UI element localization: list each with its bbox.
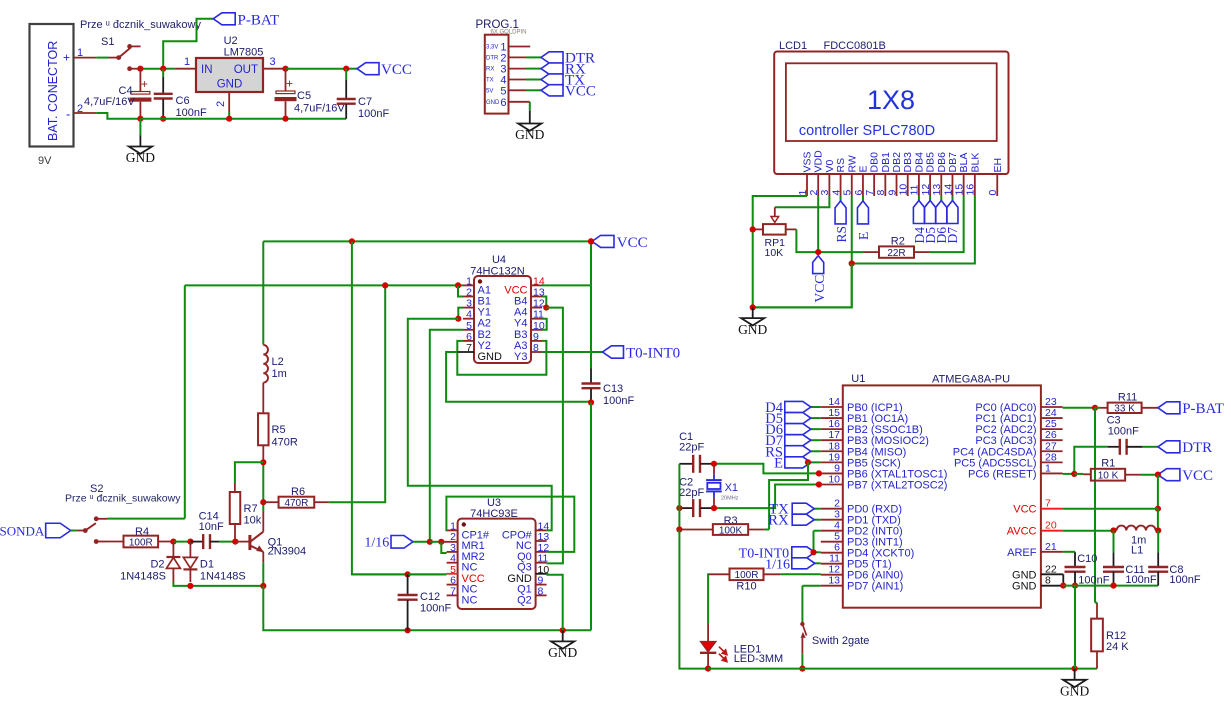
svg-text:AREF: AREF bbox=[1007, 547, 1037, 559]
pin 9 U4 A3 bbox=[531, 340, 542, 342]
svg-text:S1: S1 bbox=[101, 36, 114, 48]
wire diode GND rail bbox=[173, 582, 263, 586]
svg-text:100nF: 100nF bbox=[176, 107, 207, 119]
svg-text:GND: GND bbox=[1012, 569, 1037, 581]
svg-text:0: 0 bbox=[987, 190, 999, 196]
pin 5 U3 VCC bbox=[447, 573, 458, 575]
junction L1 right bbox=[1155, 527, 1161, 533]
flag E LCD bbox=[857, 201, 868, 224]
wire Y1 to A2 bbox=[458, 308, 463, 319]
svg-text:100nF: 100nF bbox=[420, 603, 451, 615]
pin 5 U4 B2 bbox=[463, 329, 474, 331]
capacitor C12 100nF bbox=[407, 574, 409, 594]
svg-text:R10: R10 bbox=[736, 581, 756, 593]
wire PB7 XTAL2 net bbox=[714, 485, 821, 509]
junction PB6 bbox=[816, 470, 822, 476]
svg-text:100nF: 100nF bbox=[358, 108, 389, 120]
wire PROG pin2 to DTR flag bbox=[509, 56, 527, 58]
svg-text:8: 8 bbox=[875, 190, 887, 196]
junction C11 bottom bbox=[1110, 583, 1116, 589]
junction VCC rail to U3 riser bbox=[349, 238, 355, 244]
junction C5 bottom bbox=[282, 116, 288, 122]
wire DB4 to flag D4 bbox=[918, 196, 920, 201]
flag VCC rail bbox=[592, 235, 614, 247]
wire VCC node horizontal bbox=[818, 251, 863, 253]
svg-text:+: + bbox=[63, 51, 70, 65]
svg-text:GND: GND bbox=[1060, 684, 1089, 699]
flag VCC below LCD bbox=[813, 256, 824, 274]
svg-text:+: + bbox=[286, 77, 293, 91]
svg-text:DB0: DB0 bbox=[869, 152, 881, 173]
pin 8 U1 GND bbox=[1041, 585, 1063, 587]
inductor L1 1m bbox=[1117, 526, 1156, 531]
svg-text:PD7 (AIN1): PD7 (AIN1) bbox=[847, 581, 903, 593]
pin 1 U4 A1 bbox=[463, 284, 474, 286]
wire PROG pin5 to VCC flag bbox=[509, 89, 527, 91]
svg-text:22: 22 bbox=[1045, 563, 1057, 575]
junction PC0 R11 bbox=[1092, 405, 1098, 411]
svg-text:22pF: 22pF bbox=[679, 442, 704, 454]
wire U1 GND pins bracket bbox=[1062, 574, 1064, 585]
wire OUT to VCC flag bbox=[286, 68, 347, 70]
svg-text:1: 1 bbox=[1045, 462, 1051, 474]
pin 6 U1 PD4 bbox=[821, 552, 843, 554]
ground GND right bbox=[1074, 669, 1076, 680]
wire DB6 to flag D6 bbox=[940, 196, 942, 201]
svg-text:Y3: Y3 bbox=[514, 351, 527, 363]
flag D4 to U1 bbox=[811, 406, 821, 408]
junction R4 right D2 top bbox=[170, 539, 176, 545]
junction Q1 base node bbox=[232, 539, 238, 545]
svg-text:GND: GND bbox=[478, 351, 503, 363]
svg-text:VCC: VCC bbox=[1182, 468, 1213, 484]
resistor R10 100R bbox=[709, 573, 730, 575]
junction Y1-A2 bbox=[455, 316, 461, 322]
svg-text:E: E bbox=[857, 165, 869, 172]
pin 1 U3 CP1# bbox=[447, 529, 458, 531]
svg-text:BLK: BLK bbox=[969, 153, 981, 173]
svg-text:ATMEGA8A-PU: ATMEGA8A-PU bbox=[932, 374, 1010, 386]
flag P-BAT bbox=[213, 13, 235, 25]
svg-text:24 K: 24 K bbox=[1106, 641, 1129, 653]
pin 2 U2 bbox=[228, 92, 230, 112]
wire DB5 to flag D5 bbox=[929, 196, 931, 201]
wire U4 GND pin7 route to C13 bottom bbox=[457, 351, 463, 353]
junction PB7 bbox=[816, 481, 822, 487]
wire PROG pin3 to RX flag bbox=[509, 68, 527, 70]
svg-text:1: 1 bbox=[797, 190, 809, 196]
wire MR1 stub bbox=[441, 541, 457, 543]
wire C10 gnd riser bbox=[1074, 586, 1076, 669]
flag VCC power section bbox=[357, 63, 379, 75]
svg-text:7: 7 bbox=[466, 342, 472, 354]
junction redraw VCC rail bbox=[588, 238, 594, 244]
svg-text:SONDA: SONDA bbox=[0, 524, 45, 539]
junction GND symbol right bbox=[1072, 666, 1078, 672]
wire V0 to RP1 wiper bbox=[775, 196, 830, 207]
junction VCC flag right bbox=[1155, 472, 1161, 478]
svg-text:RX: RX bbox=[768, 513, 789, 529]
wire left riser to bottom rail bbox=[679, 530, 708, 669]
pin 10 U3 GND bbox=[536, 573, 547, 575]
pin 11 U4 Y4 bbox=[531, 318, 542, 320]
wire C13 bottom to U3 GND rail bbox=[590, 403, 592, 631]
pin 1 U1 PC6 bbox=[1041, 472, 1063, 474]
svg-text:9V: 9V bbox=[38, 155, 52, 167]
svg-text:GND: GND bbox=[126, 150, 155, 165]
junction switch bottom bbox=[799, 666, 805, 672]
wire Y4 to B3 bbox=[542, 319, 547, 330]
capacitor C8 100nF bbox=[1157, 531, 1159, 553]
pin 28 U1 PC5 bbox=[1041, 461, 1063, 463]
junction R6 left bbox=[260, 499, 266, 505]
pin 12 U1 PD6 bbox=[821, 574, 843, 576]
wire SONDA to S2 bbox=[71, 530, 77, 532]
svg-text:4,7uF/16V: 4,7uF/16V bbox=[84, 96, 135, 108]
junction P-BAT riser bbox=[160, 66, 166, 72]
svg-text:R7: R7 bbox=[244, 503, 258, 515]
wire R7 bottom bbox=[234, 523, 236, 542]
pin 14 U3 CPO# bbox=[536, 529, 547, 531]
svg-text:3: 3 bbox=[819, 190, 831, 196]
flag 1/16 to U1 bbox=[815, 562, 821, 564]
pin 6 U4 Y2 bbox=[463, 340, 474, 342]
pin 9 U3 Q1 bbox=[536, 584, 547, 586]
junction C2 right / X1 bottom bbox=[711, 505, 717, 511]
svg-text:3,3V: 3,3V bbox=[486, 45, 498, 51]
wire RP1 right to VCC node bbox=[786, 228, 797, 230]
svg-text:L2: L2 bbox=[272, 356, 284, 368]
svg-text:1N4148S: 1N4148S bbox=[120, 571, 166, 583]
pin 14 U4 VCC bbox=[531, 284, 542, 286]
wire VCC riser right bbox=[1157, 475, 1159, 509]
svg-text:Prze ᵘ đcznik_suwakowy: Prze ᵘ đcznik_suwakowy bbox=[80, 19, 201, 31]
wire PC0 node bbox=[1063, 407, 1095, 409]
junction L1 left bbox=[1110, 527, 1116, 533]
svg-text:GND: GND bbox=[1012, 581, 1037, 593]
pin 6 U3 NC bbox=[447, 584, 458, 586]
wire battery pin2 to GND rail bbox=[74, 112, 97, 114]
wire S2 riser bbox=[184, 285, 186, 518]
wire GND rail top-left bbox=[140, 118, 229, 120]
svg-text:V0: V0 bbox=[824, 159, 836, 172]
junction B2 riser bbox=[427, 539, 433, 545]
junction R5 bottom bbox=[260, 459, 266, 465]
pin 8 U4 Y3 bbox=[531, 351, 542, 353]
svg-text:DB7: DB7 bbox=[947, 152, 959, 173]
wire PB6 XTAL1 net bbox=[714, 464, 821, 474]
pin 24 U1 PC1 bbox=[1041, 417, 1063, 419]
junction A1 net R6 riser bbox=[382, 282, 388, 288]
svg-text:6: 6 bbox=[500, 97, 506, 109]
svg-text:1X8: 1X8 bbox=[867, 85, 915, 115]
svg-text:TX: TX bbox=[486, 78, 494, 84]
svg-text:R5: R5 bbox=[272, 424, 286, 436]
wire R6 right to U4 A1 net bbox=[329, 285, 385, 502]
resistor R5 470R bbox=[258, 413, 269, 445]
svg-text:C5: C5 bbox=[297, 90, 311, 102]
flag D4 LCD bbox=[913, 201, 924, 224]
svg-text:L1: L1 bbox=[1131, 544, 1143, 556]
junction VCC rail to U4 pin14 riser bbox=[588, 238, 594, 244]
svg-text:100nF: 100nF bbox=[603, 395, 634, 407]
svg-text:10nF: 10nF bbox=[199, 521, 224, 533]
wire P-BAT net bbox=[163, 19, 213, 69]
wire Q1 emitter to GND rail bbox=[262, 563, 264, 586]
svg-text:1: 1 bbox=[184, 56, 190, 68]
svg-text:5: 5 bbox=[842, 190, 854, 196]
svg-text:2N3904: 2N3904 bbox=[268, 546, 307, 558]
wire RW down bbox=[753, 196, 852, 307]
svg-text:6: 6 bbox=[853, 190, 865, 196]
wire R10 left riser to LED bbox=[707, 574, 709, 624]
svg-text:8: 8 bbox=[533, 342, 539, 354]
svg-text:1/16: 1/16 bbox=[765, 557, 790, 572]
svg-text:7: 7 bbox=[450, 585, 456, 597]
wire E pin to flag bbox=[862, 196, 864, 201]
svg-text:D7: D7 bbox=[945, 227, 960, 244]
svg-text:1N4148S: 1N4148S bbox=[200, 571, 246, 583]
svg-text:DB3: DB3 bbox=[902, 152, 914, 173]
junction T0-INT0 tie bbox=[810, 549, 816, 555]
pin 1 U2 bbox=[175, 68, 196, 70]
pin 16 U1 PB2 bbox=[821, 428, 843, 430]
potentiometer RP1 10K bbox=[774, 207, 776, 218]
svg-text:controller SPLC780D: controller SPLC780D bbox=[799, 123, 935, 139]
svg-text:C6: C6 bbox=[176, 95, 190, 107]
svg-text:470R: 470R bbox=[272, 437, 298, 449]
svg-text:14: 14 bbox=[942, 184, 954, 196]
wire B2 down to 1/16 net bbox=[430, 330, 463, 542]
svg-text:DB6: DB6 bbox=[936, 152, 948, 173]
svg-text:100R: 100R bbox=[735, 570, 759, 581]
wire S2 upper throw to A1 riser bbox=[107, 518, 185, 520]
svg-text:10: 10 bbox=[898, 184, 910, 196]
pin 4 U3 NC bbox=[447, 562, 458, 564]
svg-text:100R: 100R bbox=[129, 537, 153, 548]
wire XTAL caps left riser bbox=[678, 464, 680, 508]
wire B1 hook bbox=[458, 285, 463, 296]
pin 25 U1 PC2 bbox=[1041, 428, 1063, 430]
svg-text:Swith 2gate: Swith 2gate bbox=[812, 635, 869, 647]
svg-text:2: 2 bbox=[808, 190, 820, 196]
flag T0-INT0 to U1 bbox=[815, 551, 821, 553]
wire VSS to GND riser bbox=[753, 196, 807, 307]
pin 18 U1 PB4 bbox=[821, 450, 843, 452]
junction C13 bottom bbox=[588, 399, 594, 405]
pin 12 U3 Q0 bbox=[536, 551, 547, 553]
flag D7 to U1 bbox=[811, 439, 821, 441]
svg-text:GND: GND bbox=[217, 79, 243, 91]
svg-text:10: 10 bbox=[828, 473, 840, 485]
svg-text:E: E bbox=[774, 455, 783, 471]
svg-text:22pF: 22pF bbox=[679, 487, 704, 499]
svg-text:VDD: VDD bbox=[813, 150, 825, 173]
wire PROG pin4 to TX flag bbox=[509, 79, 527, 81]
pin 7 U1 VCC bbox=[1041, 508, 1063, 510]
pin 7 U4 GND bbox=[463, 351, 474, 353]
wire Y2 to A3 bbox=[457, 341, 546, 375]
svg-text:U4: U4 bbox=[492, 254, 506, 266]
svg-text:GND: GND bbox=[486, 100, 500, 106]
svg-text:8: 8 bbox=[538, 585, 544, 597]
pin 12 U4 A4 bbox=[531, 307, 542, 309]
svg-text:10K: 10K bbox=[765, 247, 784, 259]
junction C2 left node bbox=[676, 505, 682, 511]
svg-text:DB5: DB5 bbox=[925, 152, 937, 173]
svg-text:C10: C10 bbox=[1077, 553, 1097, 565]
svg-text:20: 20 bbox=[1045, 520, 1057, 532]
inductor L2 1m bbox=[262, 241, 264, 344]
svg-text:12: 12 bbox=[920, 184, 932, 196]
svg-text:C7: C7 bbox=[358, 96, 372, 108]
wire DB7 to flag D7 bbox=[951, 196, 953, 201]
pin 2 U1 PD0 bbox=[821, 508, 843, 510]
svg-text:16: 16 bbox=[965, 184, 977, 196]
ground GND power section bbox=[139, 119, 141, 136]
flag E to U1 bbox=[811, 461, 821, 463]
wire S1 to C4 node and U2 IN bbox=[137, 68, 163, 70]
pin 8 U3 Q2 bbox=[536, 594, 547, 596]
wire U4 pin14 to riser bbox=[542, 284, 591, 286]
svg-text:NC: NC bbox=[462, 594, 478, 606]
wire VCC rail bbox=[263, 240, 592, 242]
junction C1 right / X1 top bbox=[711, 461, 717, 467]
junction LED bottom bbox=[705, 666, 711, 672]
pin 2 U4 B1 bbox=[463, 296, 474, 298]
svg-text:VCC: VCC bbox=[1013, 504, 1036, 516]
svg-text:21: 21 bbox=[1045, 541, 1057, 553]
flag DTR right bbox=[1158, 441, 1180, 453]
wire CP1 to Q0 bbox=[446, 497, 574, 552]
wire emitter node to bottom GND rail bbox=[263, 586, 591, 630]
capacitor C4 bbox=[139, 69, 141, 91]
svg-text:C13: C13 bbox=[603, 383, 623, 395]
svg-text:T0-INT0: T0-INT0 bbox=[626, 346, 680, 362]
svg-text:470R: 470R bbox=[284, 498, 308, 509]
svg-text:7: 7 bbox=[864, 190, 876, 196]
svg-text:GND: GND bbox=[515, 127, 544, 142]
svg-text:X1: X1 bbox=[725, 482, 738, 494]
pin 14 U1 PB0 bbox=[821, 406, 843, 408]
junction Q1 emitter node bbox=[260, 583, 266, 589]
wire base node to Q1 bbox=[235, 541, 249, 543]
wire PD2 INT0 riser bbox=[814, 530, 821, 532]
wire A4 net down to U3 Q3 bbox=[546, 308, 563, 564]
pin 13 U3 NC bbox=[536, 540, 547, 542]
wire pin7 row bbox=[1063, 508, 1158, 510]
svg-text:DTR: DTR bbox=[1182, 440, 1212, 456]
svg-text:DB1: DB1 bbox=[880, 152, 892, 173]
wire RS pin to flag bbox=[840, 196, 842, 201]
wire U3 GND pin10 bbox=[547, 574, 563, 631]
svg-text:BAT. CONECTOR: BAT. CONECTOR bbox=[46, 41, 60, 141]
svg-text:13: 13 bbox=[828, 575, 840, 587]
svg-text:R1: R1 bbox=[1101, 458, 1115, 470]
pin 3 U1 PD1 bbox=[821, 519, 843, 521]
wire VCC riser to U3 pin5 bbox=[352, 241, 447, 574]
wire DTR net bbox=[1074, 447, 1107, 474]
pin 9 U1 PB6 bbox=[821, 472, 843, 474]
wire VDD down to VCC node bbox=[817, 196, 819, 252]
svg-text:IN: IN bbox=[201, 64, 213, 76]
flag D5 to U1 bbox=[811, 417, 821, 419]
svg-text:DB4: DB4 bbox=[913, 152, 925, 173]
junction MR1-MR2 tie bbox=[438, 539, 444, 545]
junction U3 GND rail bbox=[560, 627, 566, 633]
pin 11 U3 Q3 bbox=[536, 562, 547, 564]
pin 22 U1 GND bbox=[1041, 573, 1063, 575]
battery connector J1 BAT. CONECTOR bbox=[30, 24, 74, 147]
svg-text:RW: RW bbox=[846, 155, 858, 172]
pin 20 U1 AVCC bbox=[1041, 530, 1063, 532]
capacitor C11 100nF bbox=[1113, 531, 1115, 553]
svg-text:P-BAT: P-BAT bbox=[1182, 401, 1224, 417]
svg-text:E: E bbox=[856, 232, 871, 240]
wire PD7 to switch bbox=[802, 585, 820, 587]
pin 3 U2 bbox=[263, 68, 286, 70]
pin 21 U1 AREF bbox=[1041, 551, 1063, 553]
svg-text:2: 2 bbox=[500, 52, 506, 64]
wire bottom GND rail right bbox=[708, 668, 1097, 670]
flag D7 LCD bbox=[947, 201, 958, 224]
pin 4 U1 PD2 bbox=[821, 530, 843, 532]
svg-text:LED-3MM: LED-3MM bbox=[734, 653, 784, 665]
junction C7 top bbox=[343, 66, 349, 72]
svg-text:-: - bbox=[66, 107, 70, 122]
flag RS LCD bbox=[835, 201, 846, 224]
junction C4 bottom bbox=[137, 116, 143, 122]
resistor R12 24 K bbox=[1096, 603, 1098, 619]
svg-text:VCC: VCC bbox=[617, 235, 648, 251]
wire B4 hook to A4 bbox=[542, 297, 546, 308]
junction R3 left bbox=[676, 526, 682, 532]
svg-text:OUT: OUT bbox=[234, 64, 258, 76]
svg-text:15: 15 bbox=[953, 184, 965, 196]
capacitor C7 bbox=[345, 69, 347, 80]
svg-text:5: 5 bbox=[500, 85, 506, 97]
flag D5 LCD bbox=[925, 201, 936, 224]
wire Y3 to T0-INT0 flag bbox=[542, 351, 603, 353]
flag P-BAT right bbox=[1158, 402, 1180, 414]
capacitor C6 bbox=[162, 69, 164, 77]
svg-text:2: 2 bbox=[215, 101, 227, 107]
svg-text:33 K: 33 K bbox=[1114, 404, 1135, 415]
junction U2 OUT bbox=[282, 66, 288, 72]
wire MR2 hook bbox=[441, 542, 446, 553]
svg-text:8: 8 bbox=[1045, 575, 1051, 587]
pin 3 U3 MR2 bbox=[447, 551, 458, 553]
capacitor C10 100nF bbox=[1065, 566, 1086, 568]
svg-text:5V: 5V bbox=[486, 88, 493, 94]
pin 27 U1 PC4 bbox=[1041, 450, 1063, 452]
wire E net to R3 bbox=[769, 462, 808, 529]
wire battery pin1 to S1 bbox=[74, 57, 97, 59]
junction C12 top bbox=[405, 571, 411, 577]
wire AREF to C10 bbox=[1063, 551, 1075, 553]
svg-text:100K: 100K bbox=[719, 525, 743, 536]
wire AVCC row bbox=[1063, 530, 1114, 532]
wire 1/16 to MR1 bbox=[413, 541, 430, 543]
svg-text:DB2: DB2 bbox=[891, 152, 903, 173]
svg-text:BLA: BLA bbox=[958, 153, 970, 173]
svg-text:GND: GND bbox=[548, 645, 577, 660]
junction GND pins bbox=[1060, 583, 1066, 589]
svg-text:C12: C12 bbox=[420, 591, 440, 603]
wire BLK to RW net bbox=[852, 196, 975, 264]
pin 5 U1 PD3 bbox=[821, 541, 843, 543]
diode D1 1N4148S bbox=[183, 557, 197, 568]
